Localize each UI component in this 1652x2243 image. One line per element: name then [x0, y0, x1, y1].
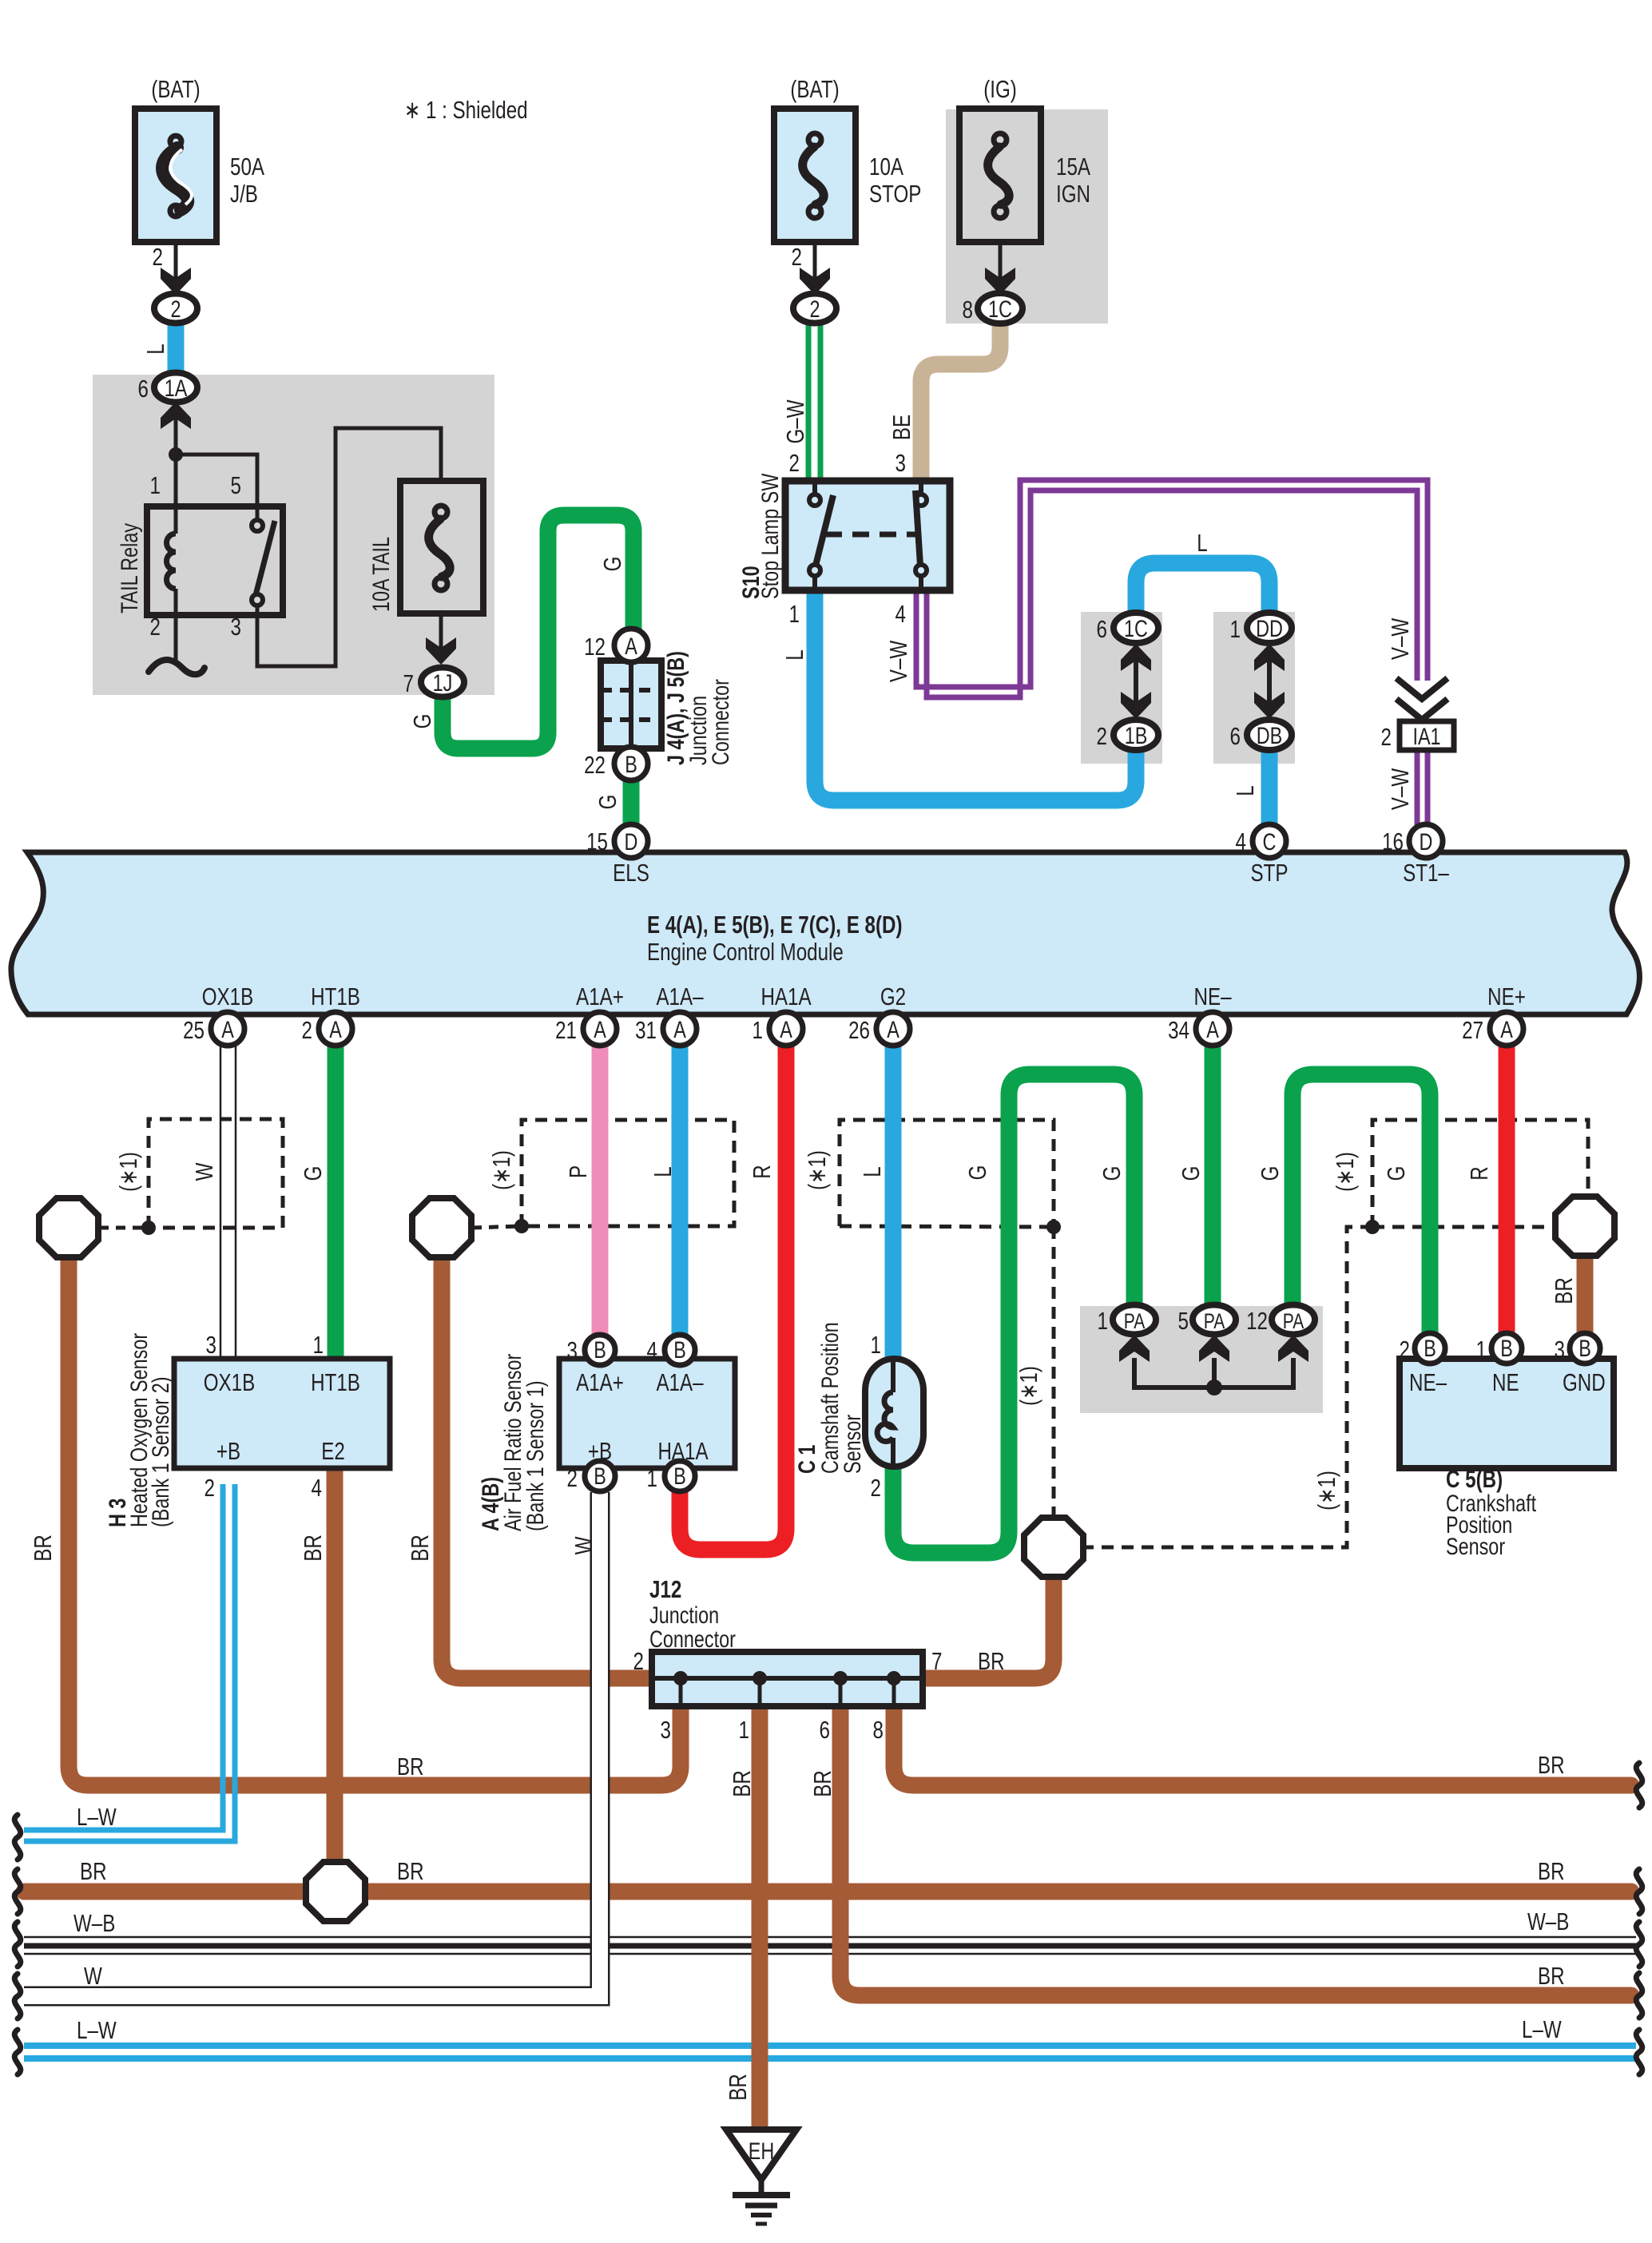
wire G green PA12 loop to C5 NE-	[1293, 1074, 1430, 1335]
fuse box 10A STOP	[774, 109, 856, 242]
oval 1A connector	[154, 373, 197, 403]
svg-text:G: G	[1177, 1166, 1205, 1181]
ground octagon G5 (BR bus)	[306, 1862, 365, 1921]
oval B J4 bottom	[614, 747, 648, 780]
svg-text:Connector: Connector	[707, 679, 733, 765]
svg-text:2: 2	[633, 1647, 644, 1675]
relay area gray box	[93, 375, 494, 695]
wire L blue SW pin1 to 1B oval	[815, 590, 1136, 800]
svg-text:STOP: STOP	[869, 180, 921, 208]
svg-text:15A: 15A	[1056, 153, 1090, 181]
shield dashed link octagon1	[99, 1226, 149, 1230]
svg-text:B: B	[625, 751, 637, 777]
svg-text:B: B	[1579, 1335, 1591, 1361]
wire L blue DB to ECM STP C	[1261, 751, 1278, 824]
svg-text:3: 3	[206, 1331, 216, 1359]
wire L blue ECM A1A- to A4	[672, 1046, 689, 1335]
svg-text:W: W	[190, 1162, 218, 1181]
H3 heated oxygen sensor box	[174, 1359, 390, 1468]
svg-text:3: 3	[1555, 1336, 1565, 1364]
svg-text:R: R	[748, 1165, 776, 1178]
double arrow between DD and DB	[1267, 658, 1272, 706]
wire L blue ECM G2 to camshaft sensor	[885, 1046, 902, 1359]
shield dashed box G2	[840, 1120, 1054, 1227]
wire 10A TAIL fuse to arrow/1J	[439, 613, 443, 651]
SW dashed link	[825, 532, 917, 538]
wire W from A4 +B down to left edge (white band)	[24, 1492, 600, 1996]
svg-text:L: L	[1197, 529, 1207, 557]
svg-text:HA1A: HA1A	[657, 1437, 709, 1465]
wire P pink ECM A1A+ to A4	[592, 1046, 609, 1335]
relay switch	[256, 506, 260, 615]
svg-text:1: 1	[871, 1331, 881, 1359]
gray box behind PA connectors	[1080, 1306, 1323, 1413]
svg-text:2: 2	[809, 296, 820, 322]
svg-text:L–W: L–W	[1522, 2015, 1562, 2043]
svg-text:1C: 1C	[1124, 615, 1148, 641]
wire relay pin3 to 10A TAIL fuse	[257, 428, 441, 666]
svg-text:27: 27	[1462, 1016, 1483, 1044]
svg-text:DD: DD	[1256, 615, 1283, 641]
svg-text:1J: 1J	[433, 669, 453, 696]
svg-text:A1A+: A1A+	[576, 1368, 624, 1396]
svg-text:P: P	[564, 1165, 592, 1178]
svg-text:TAIL Relay: TAIL Relay	[116, 522, 142, 613]
svg-text:NE+: NE+	[1487, 983, 1526, 1010]
shield junction dot NE	[1365, 1220, 1380, 1234]
wire L blue fuse50A oval2 to 1A	[168, 323, 185, 375]
oval 1J connector	[421, 668, 464, 697]
svg-text:A: A	[329, 1016, 342, 1042]
svg-text:W–B: W–B	[73, 1909, 115, 1937]
relay coil	[174, 506, 178, 615]
svg-text:(∗1): (∗1)	[1312, 1471, 1340, 1511]
svg-text:8: 8	[963, 296, 973, 324]
svg-text:Sensor: Sensor	[839, 1415, 865, 1474]
svg-text:C 5(B): C 5(B)	[1446, 1465, 1503, 1493]
svg-text:G: G	[408, 714, 436, 729]
svg-text:4: 4	[647, 1336, 657, 1364]
svg-text:(∗1): (∗1)	[487, 1150, 515, 1190]
svg-text:1: 1	[789, 600, 800, 628]
svg-text:G: G	[598, 557, 626, 572]
svg-text:V–W: V–W	[1386, 768, 1414, 810]
svg-text:NE–: NE–	[1193, 983, 1231, 1010]
svg-text:PA: PA	[1124, 1310, 1146, 1334]
svg-text:G: G	[963, 1165, 991, 1181]
svg-text:GND: GND	[1563, 1368, 1606, 1396]
svg-text:E2: E2	[321, 1437, 345, 1465]
svg-text:B: B	[673, 1463, 686, 1489]
ground octagon G3 (shield J12)	[1024, 1518, 1083, 1577]
svg-text:A: A	[594, 1016, 606, 1042]
svg-text:A1A–: A1A–	[656, 1368, 704, 1396]
svg-text:2: 2	[150, 613, 161, 641]
svg-text:NE: NE	[1492, 1368, 1519, 1396]
wire black fuse 10A STOP to arrow	[813, 242, 817, 281]
svg-text:B: B	[673, 1336, 686, 1363]
svg-text:(∗1): (∗1)	[803, 1150, 831, 1190]
svg-text:1: 1	[647, 1464, 657, 1492]
svg-text:W: W	[570, 1536, 598, 1554]
ECM top pin oval D (ELS)	[614, 824, 648, 858]
svg-text:BR: BR	[397, 1753, 424, 1781]
svg-text:B: B	[1500, 1335, 1513, 1361]
svg-text:12: 12	[1246, 1307, 1268, 1335]
svg-text:BR: BR	[1538, 1857, 1565, 1885]
wire BR octagon4 to C5 GND	[1577, 1256, 1594, 1335]
J4 junction connector block	[601, 661, 661, 748]
svg-text:10A TAIL: 10A TAIL	[367, 537, 394, 612]
svg-text:Sensor: Sensor	[1446, 1533, 1505, 1559]
svg-text:L: L	[1231, 785, 1259, 796]
torn edge squiggles left	[14, 1815, 21, 2074]
svg-text:DB: DB	[1257, 722, 1282, 748]
svg-text:NE–: NE–	[1409, 1368, 1447, 1396]
IA1 box connector	[1400, 721, 1454, 750]
svg-text:A: A	[887, 1016, 899, 1042]
svg-text:PA: PA	[1283, 1310, 1305, 1334]
svg-text:5: 5	[1178, 1307, 1189, 1335]
A4 pin ovals B	[585, 1335, 695, 1491]
gray box behind DD/DB connectors	[1213, 612, 1295, 764]
ECM band	[11, 852, 1640, 1014]
oval 2 connector (STOP)	[793, 294, 836, 324]
svg-text:+B: +B	[588, 1437, 612, 1465]
wire branch dot to relay pin5	[176, 455, 257, 506]
svg-text:BR: BR	[1538, 1751, 1565, 1779]
shield dashed box H3 (W wire)	[149, 1119, 283, 1228]
C5 pin ovals B	[1415, 1333, 1600, 1364]
fuse box 10A TAIL	[400, 481, 483, 613]
svg-text:A: A	[1206, 1016, 1219, 1042]
svg-text:OX1B: OX1B	[202, 983, 253, 1010]
svg-text:2: 2	[302, 1016, 312, 1044]
svg-text:1B: 1B	[1125, 722, 1148, 748]
wire BR right row y2235 from J12 pin8	[894, 1706, 1631, 1785]
svg-text:2: 2	[789, 449, 800, 477]
svg-text:R: R	[1465, 1166, 1493, 1180]
svg-text:D: D	[1420, 828, 1433, 855]
svg-text:(IG): (IG)	[983, 75, 1017, 103]
PA junction ovals and arrows	[1113, 1305, 1315, 1396]
arrow into 1J	[426, 637, 456, 665]
svg-text:21: 21	[555, 1016, 577, 1044]
svg-text:W–B: W–B	[1527, 1908, 1569, 1935]
wire G green J4 B oval to ECM ELS D	[623, 780, 640, 824]
svg-text:PA: PA	[1204, 1310, 1225, 1334]
svg-text:2: 2	[170, 296, 181, 322]
fuse box 50A J/B	[135, 109, 216, 242]
shield junction dot G2	[1046, 1220, 1061, 1234]
svg-text:A1A+: A1A+	[576, 983, 624, 1010]
wire L blue U 1C to DD	[1136, 563, 1269, 613]
svg-text:A: A	[221, 1016, 234, 1042]
svg-text:J/B: J/B	[230, 180, 258, 208]
wire G green ECM NE- to PA5	[1205, 1046, 1221, 1308]
svg-text:G: G	[1256, 1166, 1284, 1181]
shield dashed box A4	[522, 1120, 734, 1226]
SW left contacts	[812, 484, 817, 587]
svg-text:V–W: V–W	[884, 640, 912, 682]
shield dashed drop to octagon3	[1052, 1227, 1056, 1520]
wire BR row from ground octagon1 to J12 pin 3	[69, 1256, 681, 1785]
arrow up below 1A	[161, 402, 191, 429]
svg-text:D: D	[625, 828, 638, 855]
svg-text:2: 2	[153, 243, 163, 271]
svg-text:Connector: Connector	[649, 1626, 736, 1652]
J12 junction connector box	[652, 1652, 923, 1706]
C5 crankshaft position sensor box	[1400, 1359, 1614, 1468]
wire V-W twin purple IA1 to ECM ST1- D	[1417, 749, 1428, 827]
svg-text:HT1B: HT1B	[311, 983, 360, 1010]
svg-text:8: 8	[873, 1716, 884, 1744]
wire black fuse 50A to arrow	[174, 242, 178, 281]
wire G-W twin green oval2 to stop lamp SW pin2	[808, 323, 820, 481]
svg-text:4: 4	[1236, 828, 1246, 856]
svg-text:BR: BR	[724, 2074, 752, 2101]
svg-text:(∗1): (∗1)	[1015, 1366, 1042, 1406]
open end squiggle under relay pin2	[149, 660, 205, 674]
svg-text:A: A	[673, 1016, 686, 1042]
svg-text:W: W	[84, 1962, 102, 1990]
svg-text:2: 2	[792, 243, 802, 271]
wire black fuse 15A IGN to arrow	[999, 242, 1003, 281]
wire R red ECM HA1A to A4 HA1A	[680, 1046, 786, 1550]
svg-text:BR: BR	[397, 1857, 424, 1885]
svg-text:1: 1	[753, 1016, 763, 1044]
shield junction dot A4	[514, 1219, 529, 1233]
svg-text:6: 6	[820, 1716, 830, 1744]
svg-text:7: 7	[931, 1647, 942, 1675]
wire G green 1J to J4 A oval	[443, 515, 633, 748]
svg-text:BE: BE	[888, 415, 915, 440]
ground EH triangle	[726, 2130, 796, 2224]
svg-text:L–W: L–W	[77, 1803, 117, 1831]
svg-text:L–W: L–W	[77, 2016, 117, 2044]
svg-text:B: B	[1424, 1335, 1436, 1361]
svg-text:EH: EH	[749, 2138, 774, 2164]
svg-text:5: 5	[231, 471, 241, 499]
svg-text:G: G	[594, 795, 621, 810]
svg-text:L: L	[780, 649, 808, 660]
oval 1C connector (IGN)	[978, 293, 1023, 324]
double chevron arrow into IA1	[1396, 678, 1447, 720]
svg-text:1: 1	[1230, 615, 1241, 643]
SW right contacts	[919, 484, 923, 587]
svg-text:16: 16	[1382, 828, 1404, 856]
TAIL relay box	[147, 506, 283, 615]
svg-text:C: C	[1263, 828, 1277, 855]
camshaft position sensor capsule	[865, 1359, 923, 1467]
svg-text:BR: BR	[80, 1857, 107, 1885]
ground octagon G1 (H3)	[39, 1198, 98, 1257]
ECM bottom pin ovals A	[211, 1012, 1523, 1046]
svg-text:BR: BR	[299, 1534, 327, 1562]
ground octagon G2c (A4)	[412, 1198, 471, 1257]
wire W twin thin ECM OX1B to H3	[220, 1046, 236, 1359]
wire G green camshaft pin2 loop up to PA1	[893, 1074, 1134, 1553]
oval A J4 top	[614, 629, 648, 662]
svg-text:2: 2	[205, 1474, 215, 1502]
connector pair DD/DB	[1247, 613, 1292, 643]
svg-text:BR: BR	[29, 1534, 57, 1562]
svg-text:BR: BR	[1550, 1277, 1578, 1304]
wire R red ECM NE+ to C5 NE	[1499, 1046, 1515, 1335]
svg-text:2: 2	[871, 1474, 881, 1502]
wire BR right row y2497 from J12 pin6	[840, 1706, 1631, 1995]
svg-text:OX1B: OX1B	[204, 1368, 255, 1396]
svg-text:3: 3	[231, 613, 241, 641]
svg-text:1C: 1C	[988, 296, 1012, 322]
stop lamp switch box S10	[785, 481, 950, 590]
svg-text:BR: BR	[808, 1770, 836, 1797]
svg-text:(∗1): (∗1)	[114, 1152, 142, 1192]
svg-text:3: 3	[895, 449, 906, 477]
wire L-W twin from H3 +B to left edge	[24, 1484, 235, 1841]
gray-backed connector pair 1C/1B	[1114, 613, 1158, 643]
wire V-W twin purple SW pin4 to IA1	[916, 480, 1428, 697]
A4 air fuel ratio sensor box	[559, 1359, 735, 1468]
svg-text:HT1B: HT1B	[311, 1368, 360, 1396]
svg-text:G2: G2	[880, 983, 906, 1010]
ground octagon G4 (C5)	[1555, 1197, 1614, 1256]
wire BR E2 of H3 down to octagon5	[327, 1468, 344, 1869]
svg-text:J12: J12	[649, 1575, 681, 1603]
svg-text:G: G	[299, 1166, 327, 1181]
svg-text:(BAT): (BAT)	[790, 75, 839, 103]
svg-text:BR: BR	[406, 1534, 434, 1562]
gray box behind 1C/1B connectors	[1081, 612, 1162, 764]
arrow into oval 2 (STOP)	[800, 268, 830, 295]
svg-text:50A: 50A	[230, 153, 264, 181]
svg-text:34: 34	[1168, 1016, 1189, 1044]
svg-text:L: L	[649, 1166, 677, 1177]
svg-text:Engine Control Module: Engine Control Module	[647, 938, 844, 966]
wire L-W bus row bottom	[24, 2046, 1636, 2058]
svg-text:A: A	[1500, 1016, 1513, 1042]
wire BR octagon2 to J12 pin2	[442, 1256, 652, 1678]
svg-text:G: G	[1098, 1166, 1126, 1181]
svg-text:G–W: G–W	[781, 399, 809, 444]
svg-text:BR: BR	[1538, 1962, 1565, 1990]
svg-text:2: 2	[1097, 722, 1107, 750]
shield junction dot H3	[141, 1221, 156, 1235]
svg-text:E 4(A), E 5(B), E 7(C), E 8(D): E 4(A), E 5(B), E 7(C), E 8(D)	[647, 911, 903, 939]
svg-text:7: 7	[403, 669, 414, 697]
svg-text:1: 1	[739, 1716, 749, 1744]
svg-text:ELS: ELS	[613, 859, 649, 887]
svg-text:1: 1	[1476, 1336, 1487, 1364]
svg-text:A1A–: A1A–	[656, 983, 704, 1010]
svg-text:(∗1): (∗1)	[1331, 1152, 1359, 1192]
junction dot relay feed	[169, 447, 183, 462]
svg-text:6: 6	[1097, 615, 1107, 643]
svg-text:HA1A: HA1A	[760, 983, 812, 1010]
svg-text:ST1–: ST1–	[1403, 859, 1449, 887]
svg-text:12: 12	[584, 633, 606, 661]
svg-text:G: G	[1382, 1166, 1410, 1181]
arrow into oval 2 (50A)	[161, 268, 191, 295]
arrow into 1C (IGN)	[985, 268, 1015, 295]
oval 2 connector (50A)	[154, 294, 197, 324]
svg-text:L: L	[141, 343, 169, 354]
svg-text:15: 15	[586, 828, 608, 856]
svg-text:V–W: V–W	[1386, 617, 1414, 660]
wire G green ECM HT1B to H3	[328, 1046, 344, 1359]
ECM top pin oval D (ST1-)	[1409, 824, 1443, 858]
svg-text:26: 26	[848, 1016, 870, 1044]
shield dashed box NE	[1372, 1120, 1588, 1227]
svg-text:A: A	[780, 1016, 792, 1042]
wire BR octagon3 to J12 pin7	[923, 1575, 1054, 1678]
wire relay pin2 to open end	[174, 615, 178, 661]
svg-text:22: 22	[584, 751, 606, 779]
shield dashed path NE to octagon3	[1081, 1227, 1372, 1547]
wire relay pin1 chain: arrow to dot to relay	[174, 415, 178, 506]
svg-text:BR: BR	[728, 1770, 756, 1797]
svg-text:B: B	[594, 1463, 606, 1489]
svg-text:1: 1	[150, 471, 161, 499]
svg-text:∗ 1 : Shielded: ∗ 1 : Shielded	[404, 96, 528, 124]
svg-text:31: 31	[635, 1016, 657, 1044]
IGN gray box	[946, 109, 1108, 324]
svg-text:Stop Lamp SW: Stop Lamp SW	[757, 473, 783, 599]
svg-text:6: 6	[1230, 722, 1241, 750]
svg-text:(BAT): (BAT)	[151, 75, 200, 103]
svg-text:BR: BR	[978, 1647, 1005, 1675]
svg-text:2: 2	[567, 1464, 578, 1492]
svg-text:3: 3	[567, 1336, 578, 1364]
wire BR J12 pin1 to EH ground	[752, 1706, 768, 2130]
svg-text:(Bank 1 Sensor 2): (Bank 1 Sensor 2)	[147, 1376, 173, 1527]
svg-text:IA1: IA1	[1412, 723, 1440, 749]
svg-text:(Bank 1 Sensor 1): (Bank 1 Sensor 1)	[522, 1380, 548, 1531]
svg-text:6: 6	[138, 375, 149, 403]
svg-text:L: L	[858, 1166, 886, 1177]
svg-text:4: 4	[895, 600, 906, 628]
svg-text:10A: 10A	[869, 153, 903, 181]
svg-text:2: 2	[1400, 1336, 1410, 1364]
svg-text:4: 4	[312, 1474, 322, 1502]
wire W-B bus row	[24, 1937, 1636, 1954]
svg-text:+B: +B	[216, 1437, 240, 1465]
shield dashed link octagon2	[472, 1226, 522, 1228]
svg-text:1: 1	[1098, 1307, 1108, 1335]
wire BE tan 1C oval to stop lamp SW pin3	[921, 323, 1000, 481]
torn edge squiggles right	[1636, 1763, 1642, 2074]
svg-text:1: 1	[313, 1331, 324, 1359]
double arrow between 1C and 1B	[1134, 658, 1138, 706]
fuse box 15A IGN	[959, 109, 1041, 242]
svg-text:1A: 1A	[165, 375, 188, 401]
svg-text:A: A	[625, 633, 637, 659]
ECM top pin oval C (STP)	[1253, 824, 1286, 858]
svg-text:Junction: Junction	[649, 1602, 719, 1628]
svg-text:25: 25	[183, 1016, 205, 1044]
wire BR bus row y2368 full width	[24, 1884, 1631, 1900]
svg-text:3: 3	[661, 1716, 671, 1744]
svg-text:B: B	[594, 1336, 606, 1363]
svg-text:STP: STP	[1251, 859, 1289, 887]
svg-text:2: 2	[1381, 723, 1392, 751]
svg-text:IGN: IGN	[1056, 180, 1090, 208]
